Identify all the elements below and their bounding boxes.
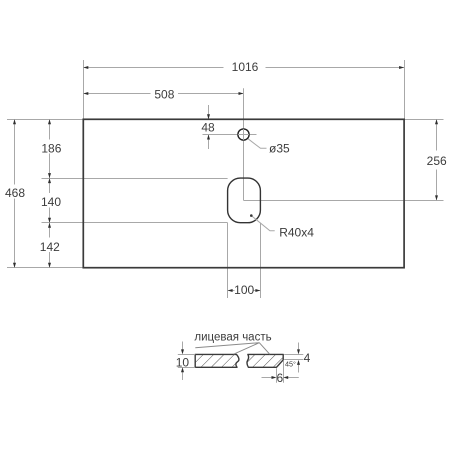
svg-text:6: 6	[276, 371, 283, 385]
svg-text:R40x4: R40x4	[279, 225, 314, 239]
svg-text:468: 468	[5, 186, 25, 200]
svg-text:140: 140	[41, 195, 61, 209]
svg-text:1016: 1016	[232, 60, 259, 74]
svg-text:4: 4	[304, 351, 311, 365]
svg-text:142: 142	[40, 240, 60, 254]
svg-text:лицевая часть: лицевая часть	[194, 331, 271, 343]
svg-text:10: 10	[176, 355, 190, 369]
svg-text:186: 186	[41, 142, 61, 156]
svg-text:48: 48	[201, 120, 215, 134]
svg-text:ø35: ø35	[269, 142, 290, 156]
svg-text:100: 100	[234, 283, 254, 297]
svg-text:256: 256	[427, 154, 447, 168]
svg-text:45°: 45°	[285, 359, 296, 368]
svg-text:508: 508	[154, 87, 174, 101]
